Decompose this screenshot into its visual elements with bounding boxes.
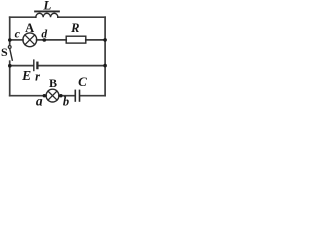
lamp B cross — [48, 91, 57, 100]
wire battery row left — [10, 65, 33, 67]
svg-text:c: c — [15, 27, 21, 41]
node left battery junction — [8, 64, 12, 68]
node right lamp-A junction — [103, 38, 107, 42]
inductor L core bar — [35, 10, 59, 12]
wire lamp-A row d to resistor — [37, 39, 67, 41]
switch S pivot circle — [8, 46, 11, 49]
wire top right — [58, 16, 105, 18]
battery E long plate — [33, 60, 35, 70]
node d — [43, 38, 47, 42]
switch S blade — [10, 49, 13, 61]
wire bottom lamp-B to capacitor — [59, 95, 75, 97]
wire lamp-A row resistor to right — [86, 39, 105, 41]
node right battery junction — [103, 64, 107, 68]
wire lamp-A row left — [10, 39, 23, 41]
wire top left — [10, 16, 36, 18]
node a — [43, 94, 46, 97]
resistor R box — [66, 36, 86, 43]
svg-text:b: b — [63, 95, 69, 107]
node left lamp-A junction — [8, 38, 12, 42]
svg-text:R: R — [70, 21, 79, 35]
svg-text:A: A — [25, 21, 34, 35]
wire left vertical top — [9, 17, 11, 45]
wire bottom left — [10, 95, 47, 97]
lamp B circle — [46, 89, 59, 102]
svg-text:S: S — [1, 45, 8, 59]
inductor L coil — [36, 13, 58, 17]
lamp A cross — [25, 35, 35, 45]
node b — [59, 94, 62, 97]
svg-text:L: L — [42, 0, 51, 13]
capacitor C left plate — [74, 90, 76, 101]
wire left vertical bottom — [9, 61, 11, 95]
lamp A circle — [23, 33, 37, 47]
svg-text:r: r — [35, 70, 40, 84]
wire right vertical — [104, 17, 106, 96]
wire battery row right — [39, 65, 106, 67]
svg-text:E: E — [21, 68, 31, 83]
svg-text:d: d — [41, 28, 47, 40]
wire bottom capacitor to right — [80, 95, 105, 97]
capacitor C right plate — [79, 90, 81, 101]
svg-text:B: B — [49, 76, 57, 90]
svg-text:C: C — [78, 74, 87, 89]
battery E short plate — [36, 63, 38, 68]
svg-text:a: a — [36, 93, 43, 106]
